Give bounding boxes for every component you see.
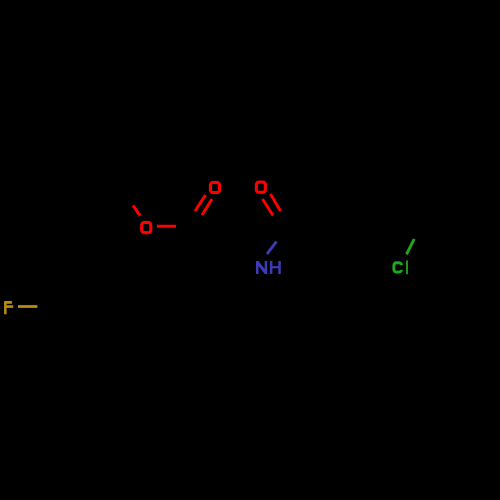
atom N1 label letter H bbox=[270, 261, 281, 274]
bond C8=O3 amide double bond line a bbox=[263, 199, 274, 216]
bond O2-C1 ester half-bond bbox=[157, 225, 176, 228]
atom O2 ester oxygen label (letter O) bbox=[142, 222, 151, 232]
atom Cl1 label letter C opening (background carve) bbox=[399, 265, 404, 270]
bond Cl1-C(aryl) half-bond bbox=[407, 239, 415, 254]
atom Cl1 label letter C bbox=[394, 263, 402, 272]
bond C1=O1 carbonyl double bond line a bbox=[195, 195, 206, 211]
wire ethyl CH3-CH2 bbox=[56, 180, 455, 306]
bond C8=O3 amide double bond line b bbox=[271, 194, 281, 211]
bond N1-C8 amide half-bond bbox=[267, 242, 277, 255]
bond F1-C(aryl) half-bond bbox=[18, 305, 37, 308]
bond CH2-O2 ester half-bond bbox=[133, 206, 140, 216]
atom F1 fluorine label (letter F) bbox=[4, 301, 13, 314]
atom N1 label letter N bbox=[256, 261, 267, 274]
atom O3 amide oxygen label (letter O) bbox=[256, 182, 265, 192]
atom Cl1 label letter l bbox=[406, 261, 408, 275]
atom O1 carbonyl oxygen label (letter O) bbox=[210, 182, 219, 192]
bond C1=O1 carbonyl double bond line b bbox=[202, 199, 212, 215]
